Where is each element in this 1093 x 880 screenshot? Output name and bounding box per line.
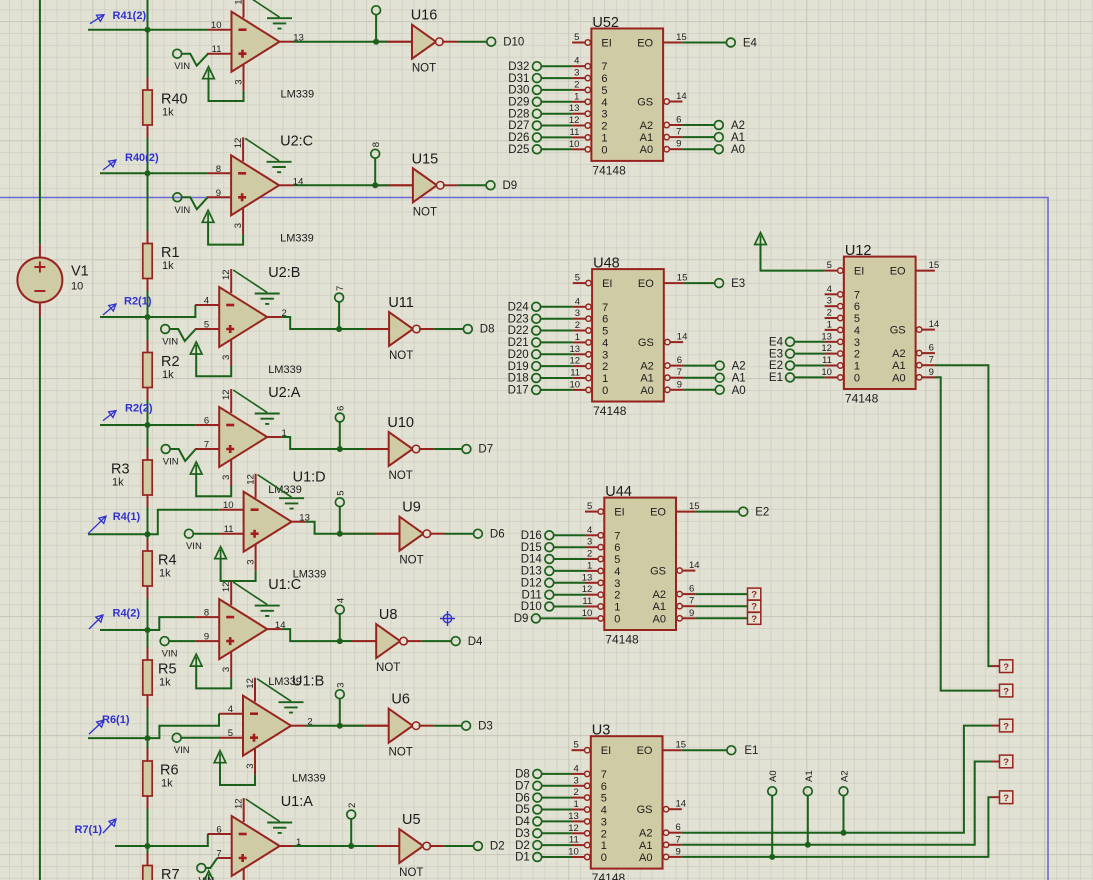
svg-text:R2(1): R2(1)	[124, 296, 152, 308]
svg-text:A0: A0	[768, 770, 779, 782]
svg-text:74148: 74148	[593, 404, 627, 418]
svg-text:E3: E3	[769, 348, 783, 360]
svg-text:15: 15	[676, 740, 687, 751]
svg-text:12: 12	[568, 823, 579, 834]
svg-text:9: 9	[689, 608, 694, 619]
svg-text:13: 13	[569, 103, 580, 114]
svg-text:12: 12	[234, 798, 245, 809]
svg-text:74148: 74148	[592, 871, 626, 880]
svg-text:12: 12	[821, 343, 832, 354]
svg-text:6: 6	[614, 542, 620, 554]
svg-text:D7: D7	[478, 444, 493, 456]
svg-text:8: 8	[216, 164, 221, 175]
svg-text:EI: EI	[601, 38, 611, 50]
svg-text:D14: D14	[521, 554, 543, 566]
svg-text:11: 11	[570, 368, 580, 379]
svg-text:10: 10	[211, 20, 222, 31]
svg-text:R40: R40	[161, 92, 188, 108]
svg-text:9: 9	[677, 379, 682, 390]
svg-text:8: 8	[371, 142, 382, 147]
svg-text:D13: D13	[521, 566, 542, 578]
svg-text:NOT: NOT	[376, 662, 400, 674]
svg-text:6: 6	[216, 825, 221, 836]
svg-text:13: 13	[568, 811, 579, 822]
svg-text:U1:A: U1:A	[281, 794, 314, 810]
svg-text:14: 14	[293, 176, 304, 187]
svg-text:D1: D1	[515, 852, 530, 864]
svg-text:R1: R1	[161, 245, 180, 261]
svg-text:EO: EO	[638, 278, 654, 290]
svg-text:7: 7	[677, 367, 682, 378]
svg-text:?: ?	[1003, 721, 1009, 732]
svg-text:1: 1	[575, 332, 580, 343]
svg-text:D2: D2	[490, 841, 505, 853]
svg-text:4: 4	[336, 598, 347, 603]
svg-text:NOT: NOT	[399, 867, 423, 879]
svg-text:14: 14	[275, 620, 286, 631]
svg-text:D28: D28	[508, 108, 529, 120]
svg-text:D17: D17	[508, 385, 529, 397]
svg-text:NOT: NOT	[389, 470, 413, 482]
svg-text:12: 12	[569, 115, 580, 126]
svg-text:4: 4	[614, 566, 620, 578]
svg-text:R6(1): R6(1)	[102, 714, 130, 726]
svg-text:?: ?	[1003, 757, 1009, 768]
svg-text:D5: D5	[515, 804, 530, 816]
svg-text:3: 3	[234, 79, 245, 84]
svg-text:E1: E1	[769, 372, 783, 384]
svg-text:4: 4	[602, 337, 608, 349]
svg-text:2: 2	[601, 121, 607, 133]
svg-text:3: 3	[221, 475, 232, 480]
svg-text:1k: 1k	[112, 477, 124, 489]
svg-text:U1:C: U1:C	[268, 577, 301, 593]
svg-text:10: 10	[582, 608, 593, 619]
svg-text:13: 13	[299, 513, 310, 524]
svg-text:3: 3	[601, 109, 607, 121]
svg-text:3: 3	[602, 349, 608, 361]
svg-text:7: 7	[601, 769, 607, 781]
svg-text:U44: U44	[605, 484, 632, 500]
svg-text:6: 6	[929, 343, 934, 354]
svg-text:3: 3	[601, 816, 607, 828]
svg-text:6: 6	[602, 314, 608, 326]
svg-text:9: 9	[676, 139, 681, 150]
svg-text:D10: D10	[503, 36, 524, 48]
svg-text:1k: 1k	[162, 260, 174, 272]
svg-text:3: 3	[614, 578, 620, 590]
svg-text:10: 10	[223, 500, 234, 511]
svg-text:LM339: LM339	[281, 89, 315, 101]
svg-text:6: 6	[677, 355, 682, 366]
svg-text:3: 3	[221, 667, 232, 672]
svg-text:2: 2	[827, 308, 832, 319]
svg-text:EI: EI	[601, 745, 611, 757]
svg-text:NOT: NOT	[389, 747, 413, 759]
svg-text:12: 12	[234, 0, 245, 5]
svg-text:6: 6	[854, 301, 860, 313]
svg-text:NOT: NOT	[399, 555, 423, 567]
svg-text:14: 14	[677, 332, 688, 343]
svg-text:R7: R7	[161, 867, 180, 880]
svg-text:12: 12	[233, 138, 244, 149]
svg-text:2: 2	[614, 590, 620, 602]
svg-text:13: 13	[821, 331, 832, 342]
svg-text:NOT: NOT	[389, 350, 413, 362]
svg-text:D6: D6	[490, 528, 505, 540]
svg-text:10: 10	[821, 367, 832, 378]
svg-text:3: 3	[854, 337, 860, 349]
svg-text:U8: U8	[379, 607, 398, 623]
svg-text:1: 1	[602, 373, 608, 385]
svg-text:U3: U3	[592, 723, 611, 739]
svg-text:5: 5	[614, 554, 620, 566]
svg-text:A1: A1	[640, 132, 653, 144]
svg-text:14: 14	[929, 319, 940, 330]
svg-text:D18: D18	[508, 373, 529, 385]
svg-text:GS: GS	[638, 337, 654, 349]
svg-text:A2: A2	[731, 120, 745, 132]
svg-text:U9: U9	[402, 500, 421, 516]
svg-text:D11: D11	[522, 589, 542, 601]
svg-text:VIN: VIN	[174, 61, 190, 72]
svg-text:D9: D9	[514, 613, 529, 625]
svg-text:D22: D22	[508, 325, 529, 337]
svg-text:?: ?	[751, 602, 757, 613]
svg-text:E2: E2	[769, 360, 783, 372]
svg-text:5: 5	[601, 85, 607, 97]
svg-text:D6: D6	[515, 792, 530, 804]
svg-text:D23: D23	[508, 313, 529, 325]
svg-text:4: 4	[228, 704, 233, 715]
svg-text:R3: R3	[111, 462, 130, 478]
svg-text:7: 7	[676, 834, 681, 845]
svg-text:3: 3	[587, 537, 592, 548]
svg-text:E1: E1	[744, 745, 758, 757]
svg-text:10: 10	[570, 379, 581, 390]
svg-text:5: 5	[602, 326, 608, 338]
svg-text:3: 3	[575, 308, 580, 319]
svg-text:D3: D3	[478, 720, 493, 732]
svg-text:1k: 1k	[162, 369, 174, 381]
svg-text:5: 5	[574, 32, 579, 43]
svg-text:2: 2	[602, 361, 608, 373]
svg-text:14: 14	[676, 91, 687, 102]
svg-text:A2: A2	[840, 770, 851, 782]
svg-text:74148: 74148	[605, 633, 639, 647]
svg-text:A2: A2	[639, 828, 652, 840]
svg-text:11: 11	[582, 596, 592, 607]
svg-text:D8: D8	[480, 324, 495, 336]
svg-text:4: 4	[601, 805, 607, 817]
svg-text:NOT: NOT	[412, 63, 436, 75]
svg-text:D4: D4	[468, 636, 483, 648]
svg-text:10: 10	[568, 847, 579, 858]
svg-text:11: 11	[822, 355, 832, 366]
svg-text:A2: A2	[640, 361, 653, 373]
svg-text:6: 6	[601, 73, 607, 85]
svg-text:EO: EO	[637, 745, 653, 757]
svg-text:1k: 1k	[162, 107, 174, 119]
svg-text:A2: A2	[653, 589, 666, 601]
svg-text:2: 2	[574, 79, 579, 90]
svg-text:2: 2	[574, 787, 579, 798]
svg-text:LM339: LM339	[280, 232, 314, 244]
svg-text:6: 6	[601, 781, 607, 793]
svg-text:D24: D24	[508, 302, 530, 314]
svg-text:D12: D12	[521, 578, 542, 590]
svg-text:0: 0	[854, 372, 860, 384]
svg-text:2: 2	[601, 828, 607, 840]
svg-text:0: 0	[614, 613, 620, 625]
svg-text:EO: EO	[890, 266, 906, 278]
svg-text:A0: A0	[653, 613, 666, 625]
svg-text:3: 3	[574, 68, 579, 79]
svg-text:D3: D3	[515, 828, 530, 840]
svg-text:1: 1	[574, 799, 579, 810]
svg-text:2: 2	[854, 349, 860, 361]
svg-text:R4: R4	[158, 553, 177, 569]
svg-text:12: 12	[246, 474, 257, 485]
svg-text:R2: R2	[161, 354, 180, 370]
svg-text:E4: E4	[769, 337, 784, 349]
svg-text:9: 9	[676, 846, 681, 857]
svg-text:LM339: LM339	[268, 364, 302, 376]
svg-text:?: ?	[1003, 686, 1009, 697]
svg-text:U2:B: U2:B	[268, 265, 300, 281]
svg-text:D31: D31	[508, 73, 529, 85]
svg-text:11: 11	[569, 835, 579, 846]
svg-text:2: 2	[575, 320, 580, 331]
svg-text:A2: A2	[892, 348, 905, 360]
svg-text:6: 6	[336, 406, 347, 411]
svg-text:12: 12	[570, 356, 581, 367]
svg-text:10: 10	[569, 139, 580, 150]
svg-text:R41(2): R41(2)	[113, 10, 147, 22]
svg-text:1: 1	[574, 91, 579, 102]
svg-text:7: 7	[602, 302, 608, 314]
svg-text:0: 0	[602, 385, 608, 397]
svg-text:D2: D2	[515, 840, 530, 852]
svg-text:4: 4	[854, 325, 860, 337]
svg-text:4: 4	[574, 56, 579, 67]
svg-text:15: 15	[676, 32, 687, 43]
svg-text:U1:D: U1:D	[293, 470, 326, 486]
svg-text:15: 15	[929, 260, 940, 271]
svg-text:74148: 74148	[592, 164, 626, 178]
svg-text:A1: A1	[653, 601, 666, 613]
svg-text:U1:B: U1:B	[292, 674, 324, 690]
svg-text:EI: EI	[854, 266, 864, 278]
svg-text:2: 2	[347, 803, 358, 808]
svg-text:A1: A1	[731, 132, 745, 144]
svg-text:D19: D19	[508, 361, 529, 373]
svg-text:3: 3	[827, 296, 832, 307]
svg-text:D21: D21	[508, 337, 529, 349]
svg-text:0: 0	[601, 852, 607, 864]
svg-text:13: 13	[293, 33, 304, 44]
svg-text:4: 4	[601, 97, 607, 109]
svg-text:12: 12	[221, 582, 232, 593]
svg-text:2: 2	[587, 549, 592, 560]
svg-text:7: 7	[929, 355, 934, 366]
svg-text:9: 9	[929, 367, 934, 378]
svg-text:E3: E3	[731, 278, 745, 290]
svg-text:7: 7	[689, 596, 694, 607]
svg-text:LM339: LM339	[292, 773, 326, 785]
svg-text:14: 14	[689, 560, 700, 571]
svg-text:VIN: VIN	[198, 876, 214, 880]
svg-text:5: 5	[574, 740, 579, 751]
svg-text:12: 12	[245, 678, 256, 689]
svg-text:6: 6	[676, 115, 681, 126]
svg-text:1: 1	[587, 560, 592, 571]
svg-text:EO: EO	[637, 38, 653, 50]
svg-text:?: ?	[1003, 793, 1009, 804]
svg-text:A2: A2	[732, 361, 746, 373]
svg-text:GS: GS	[637, 97, 653, 109]
svg-text:7: 7	[601, 61, 607, 73]
svg-text:D8: D8	[515, 769, 530, 781]
svg-text:1: 1	[601, 132, 607, 144]
svg-text:D25: D25	[508, 144, 529, 156]
svg-text:4: 4	[587, 525, 592, 536]
svg-text:4: 4	[574, 763, 579, 774]
svg-text:A1: A1	[892, 360, 905, 372]
svg-text:EI: EI	[602, 278, 612, 290]
svg-text:VIN: VIN	[163, 457, 179, 468]
svg-text:VIN: VIN	[186, 541, 202, 552]
svg-text:U48: U48	[593, 256, 620, 272]
svg-text:D9: D9	[503, 180, 518, 192]
svg-text:A0: A0	[892, 372, 905, 384]
svg-text:A1: A1	[804, 770, 815, 782]
svg-text:R5: R5	[158, 662, 177, 678]
svg-text:3: 3	[246, 559, 257, 564]
svg-text:D20: D20	[508, 349, 529, 361]
svg-text:6: 6	[689, 584, 694, 595]
svg-text:A0: A0	[640, 144, 653, 156]
svg-text:U10: U10	[387, 415, 414, 431]
svg-text:D7: D7	[515, 781, 530, 793]
svg-text:7: 7	[614, 530, 620, 542]
svg-text:5: 5	[587, 501, 592, 512]
svg-text:10: 10	[71, 281, 83, 293]
svg-text:A1: A1	[732, 373, 746, 385]
svg-text:6: 6	[204, 416, 209, 427]
svg-text:A0: A0	[639, 852, 652, 864]
svg-text:R4(1): R4(1)	[113, 511, 141, 523]
svg-text:D16: D16	[521, 530, 542, 542]
svg-text:1: 1	[296, 837, 301, 848]
svg-text:GS: GS	[890, 325, 906, 337]
svg-text:1k: 1k	[159, 568, 171, 580]
svg-text:A1: A1	[640, 373, 653, 385]
svg-text:U5: U5	[402, 812, 421, 828]
svg-text:5: 5	[336, 490, 347, 495]
svg-text:7: 7	[676, 127, 681, 138]
svg-text:V1: V1	[71, 264, 89, 280]
svg-text:A2: A2	[640, 120, 653, 132]
svg-text:R6: R6	[160, 763, 179, 779]
svg-text:5: 5	[601, 793, 607, 805]
svg-text:1: 1	[827, 319, 832, 330]
svg-text:8: 8	[204, 608, 209, 619]
svg-text:EO: EO	[650, 507, 666, 519]
svg-text:U2:A: U2:A	[268, 385, 301, 401]
svg-text:D4: D4	[515, 816, 530, 828]
svg-text:7: 7	[335, 286, 346, 291]
svg-text:5: 5	[854, 313, 860, 325]
svg-text:3: 3	[336, 682, 347, 687]
svg-text:?: ?	[751, 590, 757, 601]
svg-text:12: 12	[582, 584, 593, 595]
svg-text:1: 1	[854, 361, 860, 373]
svg-text:VIN: VIN	[174, 205, 190, 216]
svg-text:E4: E4	[743, 38, 758, 50]
svg-text:5: 5	[575, 273, 580, 284]
svg-text:74148: 74148	[845, 392, 879, 406]
svg-text:?: ?	[1003, 662, 1009, 673]
svg-text:1k: 1k	[161, 778, 173, 790]
svg-text:0: 0	[601, 144, 607, 156]
svg-text:4: 4	[575, 296, 580, 307]
svg-text:A1: A1	[639, 840, 652, 852]
svg-text:R2(2): R2(2)	[125, 403, 153, 415]
svg-text:VIN: VIN	[162, 337, 178, 348]
svg-text:3: 3	[245, 763, 256, 768]
svg-text:D30: D30	[508, 85, 529, 97]
svg-text:D27: D27	[508, 120, 529, 132]
svg-text:D15: D15	[521, 542, 542, 554]
svg-text:GS: GS	[637, 804, 653, 816]
svg-text:2: 2	[282, 308, 287, 319]
svg-text:15: 15	[677, 273, 688, 284]
svg-text:U6: U6	[391, 692, 410, 708]
svg-text:A0: A0	[731, 144, 745, 156]
svg-text:15: 15	[689, 501, 700, 512]
svg-text:D29: D29	[508, 97, 529, 109]
svg-text:?: ?	[751, 614, 757, 625]
svg-text:3: 3	[221, 355, 232, 360]
svg-text:U12: U12	[845, 243, 872, 259]
svg-text:7: 7	[854, 289, 860, 301]
svg-text:E2: E2	[755, 507, 769, 519]
svg-text:6: 6	[676, 822, 681, 833]
svg-text:VIN: VIN	[162, 649, 178, 660]
svg-text:1: 1	[282, 428, 287, 439]
svg-text:13: 13	[582, 572, 593, 583]
svg-text:NOT: NOT	[413, 206, 437, 218]
svg-text:5: 5	[827, 260, 832, 271]
svg-text:GS: GS	[650, 566, 666, 578]
svg-text:VIN: VIN	[174, 745, 190, 756]
svg-text:4: 4	[827, 284, 832, 295]
svg-text:EI: EI	[614, 507, 624, 519]
svg-text:A0: A0	[732, 385, 746, 397]
svg-text:1: 1	[614, 602, 620, 614]
svg-text:D32: D32	[508, 61, 529, 73]
svg-text:12: 12	[221, 269, 232, 280]
svg-text:U16: U16	[411, 8, 438, 24]
svg-text:1: 1	[601, 840, 607, 852]
svg-text:U11: U11	[388, 295, 414, 311]
svg-text:D26: D26	[508, 132, 529, 144]
svg-text:13: 13	[570, 344, 581, 355]
svg-text:R40(2): R40(2)	[125, 152, 159, 164]
svg-text:12: 12	[221, 389, 232, 400]
svg-text:R7(1): R7(1)	[74, 824, 102, 836]
